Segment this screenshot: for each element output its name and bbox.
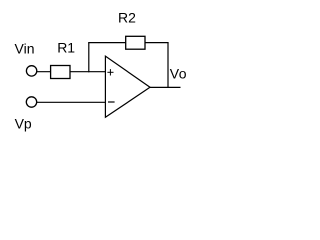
svg-text:Vin: Vin [15,41,35,57]
op-amp + input marker [107,69,113,75]
wire feedback top horizontal [88,42,168,44]
svg-text:R1: R1 [57,40,75,56]
svg-text:Vp: Vp [15,116,32,132]
wire feedback tap vertical [88,43,90,73]
wire Vin input to op-amp [37,71,106,73]
terminal Vp [26,97,36,107]
wire feedback right vertical [167,43,169,88]
resistor R1 [51,66,70,79]
op-amp U1 [105,56,150,117]
terminal Vin [26,66,36,76]
op-amp - input marker [108,101,115,103]
wire Vp input to op-amp [37,101,106,103]
svg-text:R2: R2 [118,10,136,26]
resistor R2 [126,36,145,49]
svg-text:Vo: Vo [170,66,187,82]
wire output [150,86,181,88]
